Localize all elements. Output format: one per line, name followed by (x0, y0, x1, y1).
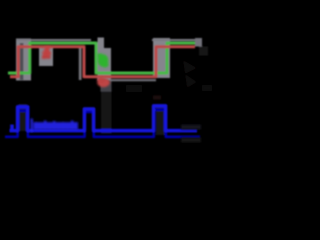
gray nominal low line (110, 79, 156, 81)
end marker dark square (199, 47, 208, 56)
gray sliver left of red fall edge (79, 48, 82, 81)
dark band inside clock pulse 3 (156, 104, 166, 135)
faint dark label under rise2 (153, 96, 161, 100)
gray patch label tr (39, 47, 53, 66)
uncertainty band fall (upper, right of green edge) (98, 38, 105, 81)
label glyph A (red, after rise) (42, 47, 52, 60)
red trace (10, 47, 195, 77)
dark band inside clock pulse 1 (19, 104, 28, 131)
uncertainty band rise 2 (153, 38, 170, 78)
label glyph S (green, in fall band) (98, 54, 109, 66)
faint dark label bottom right of rise2 (126, 85, 142, 92)
faint dark label right of pulse3 (202, 85, 212, 91)
blue clock trace (10, 106, 198, 131)
gray nominal high line right (152, 39, 195, 41)
navy shadow clock trace (5, 110, 200, 137)
faint dark blob near blue line end (181, 125, 201, 130)
uncertainty band fall (lower wide part) (104, 48, 111, 81)
green trace (8, 43, 195, 73)
dark strip inside rise 2 band (158, 44, 161, 78)
uncertainty band rise 1 (16, 39, 31, 81)
gray nominal high line (16, 39, 91, 41)
dark column to clock fall band (101, 92, 112, 134)
blue timing text (31, 119, 79, 133)
dark strip inside rise 1 band (20, 43, 24, 80)
gray patch below fall label (101, 81, 112, 92)
label glyph B (red, below low line at fall) (97, 78, 110, 87)
end marker gray square (195, 38, 202, 47)
faint dark label right of fall (183, 60, 197, 88)
